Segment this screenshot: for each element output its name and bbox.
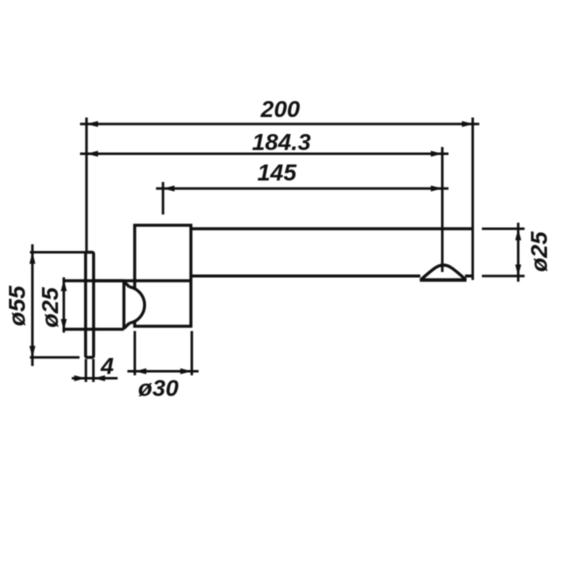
svg-text:200: 200 bbox=[260, 96, 300, 122]
svg-text:ø55: ø55 bbox=[4, 285, 30, 326]
svg-text:ø30: ø30 bbox=[138, 375, 179, 401]
svg-text:4: 4 bbox=[100, 353, 114, 379]
svg-text:184.3: 184.3 bbox=[252, 129, 311, 155]
svg-text:145: 145 bbox=[257, 160, 297, 186]
svg-text:ø25: ø25 bbox=[37, 286, 63, 327]
svg-text:ø25: ø25 bbox=[526, 231, 552, 272]
